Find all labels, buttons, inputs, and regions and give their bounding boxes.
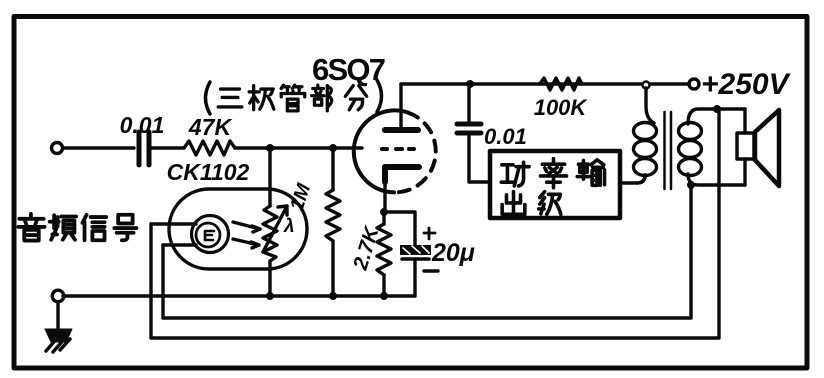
wire [63, 146, 134, 149]
svg-text:0.01: 0.01 [484, 124, 527, 149]
svg-text:6SQ7: 6SQ7 [312, 52, 386, 87]
CK1102 stadium envelope [169, 189, 307, 269]
cathode of U1 [385, 167, 419, 182]
label + [424, 228, 435, 239]
light arrows [233, 222, 260, 248]
svg-text:20μ: 20μ [431, 239, 475, 267]
grid of U1 (dashed) [382, 147, 414, 151]
label 功率输出级 [501, 159, 604, 215]
input terminal top [52, 143, 63, 154]
transformer T1 secondary [679, 123, 702, 140]
wire [469, 136, 490, 182]
node C junction [466, 80, 474, 88]
wire to ground [56, 302, 59, 330]
svg-text:0.01: 0.01 [120, 112, 165, 138]
wire [152, 146, 184, 149]
svg-text:CK1102: CK1102 [167, 159, 250, 185]
feedback wire outer (lamp to secondary top) [151, 111, 719, 338]
ground rail wire [63, 294, 415, 297]
photoresistor branch wire [268, 148, 271, 206]
lamp lead wires [151, 222, 196, 225]
lamp of CK1102 [192, 216, 229, 253]
svg-text:+250V: +250V [701, 68, 792, 101]
wire cathode to 20u [384, 212, 415, 245]
feedback wire inner (lamp to secondary bottom) [163, 188, 691, 318]
speaker LS [743, 109, 746, 133]
input terminal bottom [52, 290, 64, 302]
resistor 47K [184, 141, 235, 155]
block 功率输出级 box [490, 151, 620, 218]
resistor 2.7K [380, 208, 388, 216]
wire [413, 259, 416, 296]
capacitor 20u electrolytic [400, 245, 431, 259]
label 音频信号 [18, 214, 136, 241]
svg-text:47K: 47K [188, 114, 233, 140]
tube U1 6SQ7 envelope [354, 110, 408, 192]
junction secondary top [713, 105, 721, 113]
terminal +250V [689, 79, 699, 89]
label (三极管部分) [206, 80, 382, 114]
arrow through photoresistor [263, 206, 287, 252]
B+ wire from plate [401, 82, 642, 85]
label minus [424, 269, 438, 272]
node B junction [329, 144, 337, 152]
photoresistor of CK1102 [263, 206, 277, 261]
svg-text:λ: λ [283, 216, 295, 237]
node A junction [266, 144, 274, 152]
wire [650, 82, 689, 85]
resistor R 100K [540, 78, 582, 90]
wire box to transformer [620, 175, 645, 183]
transformer T1 primary [646, 88, 654, 123]
node D small circle [643, 82, 650, 89]
coupling capacitor 0.01 [467, 88, 470, 121]
ground (earth hatch) [45, 329, 72, 352]
plate of U1 [385, 127, 418, 133]
wire [235, 146, 362, 149]
junction secondary bottom [687, 181, 695, 189]
plate lead wire [399, 84, 402, 128]
cathode lead wire [383, 182, 386, 212]
svg-text:100K: 100K [534, 95, 589, 120]
transformer core [663, 112, 666, 189]
resistor 1M branch [331, 148, 334, 190]
capacitor C1 0.01 [139, 132, 149, 165]
